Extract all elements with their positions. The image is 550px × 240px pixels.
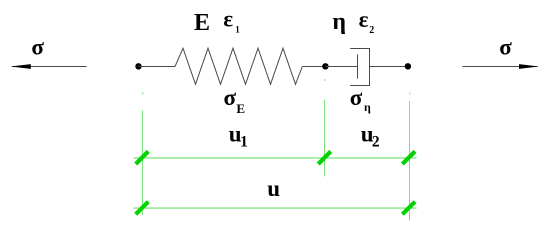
node dot B (spring-dashpot junction) xyxy=(322,63,328,69)
svg-text:σ: σ xyxy=(350,85,363,110)
wire dot A to spring xyxy=(139,66,176,68)
extension line middle xyxy=(324,100,326,177)
tick at right of u xyxy=(402,202,415,215)
node dot C (right end of dashpot) xyxy=(405,63,411,69)
extension line right xyxy=(409,101,411,221)
wire spring to node B xyxy=(302,66,325,68)
tick at left of u xyxy=(136,202,149,215)
svg-text:σ: σ xyxy=(499,35,512,60)
spring E (zigzag) xyxy=(175,48,302,84)
right arrowhead xyxy=(519,64,539,69)
svg-text:1: 1 xyxy=(240,133,248,150)
svg-text:2: 2 xyxy=(369,25,374,36)
svg-text:ε: ε xyxy=(359,7,369,32)
dashpot piston rod xyxy=(325,66,357,68)
svg-text:E: E xyxy=(236,101,245,116)
dimension line u1-u2 xyxy=(134,157,417,159)
dimension line u xyxy=(134,207,417,209)
svg-text:σ: σ xyxy=(31,35,44,60)
extension line left xyxy=(142,111,144,216)
svg-text:E: E xyxy=(194,10,210,36)
svg-text:2: 2 xyxy=(372,133,380,150)
svg-text:ε: ε xyxy=(223,6,233,31)
svg-text:u: u xyxy=(267,176,280,201)
extension line left faint dot xyxy=(142,92,144,95)
extension line right faint dot xyxy=(409,93,411,95)
dashpot piston plate xyxy=(357,55,359,79)
tick at right of u2 xyxy=(402,151,415,164)
svg-text:η: η xyxy=(332,9,346,35)
wire dashpot to node C xyxy=(370,66,408,68)
svg-text:η: η xyxy=(364,100,371,114)
tick at left of u1 xyxy=(136,151,149,164)
right stress arrow line xyxy=(462,66,537,68)
node dot A (left end of spring) xyxy=(135,63,141,69)
extension line middle faint dot xyxy=(324,79,326,81)
left arrowhead xyxy=(11,64,31,69)
svg-text:1: 1 xyxy=(235,24,240,34)
left stress arrow line xyxy=(12,66,87,68)
tick at u1-u2 boundary xyxy=(318,151,331,164)
svg-text:σ: σ xyxy=(224,85,237,110)
dashpot cylinder eta xyxy=(350,49,369,86)
